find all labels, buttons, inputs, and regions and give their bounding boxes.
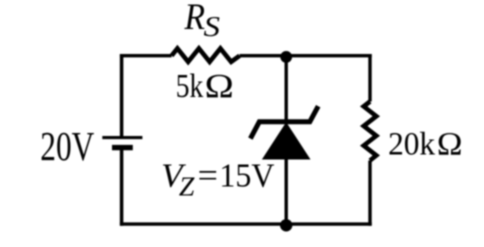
node junction dot bottom (280, 219, 292, 231)
wire middle branch lower (285, 158, 288, 226)
battery V1 short thick plate (112, 145, 133, 150)
zener diode D1 cathode bar with bent wings (250, 106, 318, 138)
battery V1 long plate (102, 136, 142, 139)
node junction dot top (280, 51, 292, 63)
svg-text:S: S (204, 11, 221, 43)
zener diode D1 anode triangle (263, 123, 310, 159)
resistor RS zigzag (172, 48, 240, 61)
svg-text:15V: 15V (219, 158, 274, 195)
svg-text:R: R (184, 0, 205, 38)
svg-text:Z: Z (179, 170, 195, 201)
svg-text:=: = (198, 158, 218, 195)
wire right rail upper (368, 54, 371, 102)
wire left rail upper (120, 54, 124, 138)
svg-text:5k: 5k (176, 68, 204, 105)
wire top rail left segment (120, 54, 172, 57)
svg-text:Ω: Ω (205, 68, 234, 105)
svg-text:20V: 20V (40, 123, 94, 169)
svg-text:Ω: Ω (437, 127, 463, 163)
wire left rail lower (120, 148, 124, 226)
wire middle branch upper (285, 56, 288, 124)
wire bottom rail (120, 222, 372, 225)
svg-text:20k: 20k (388, 127, 435, 163)
wire right rail lower (368, 161, 371, 226)
wire top rail right segment (240, 54, 372, 57)
resistor RL zigzag (364, 102, 377, 161)
